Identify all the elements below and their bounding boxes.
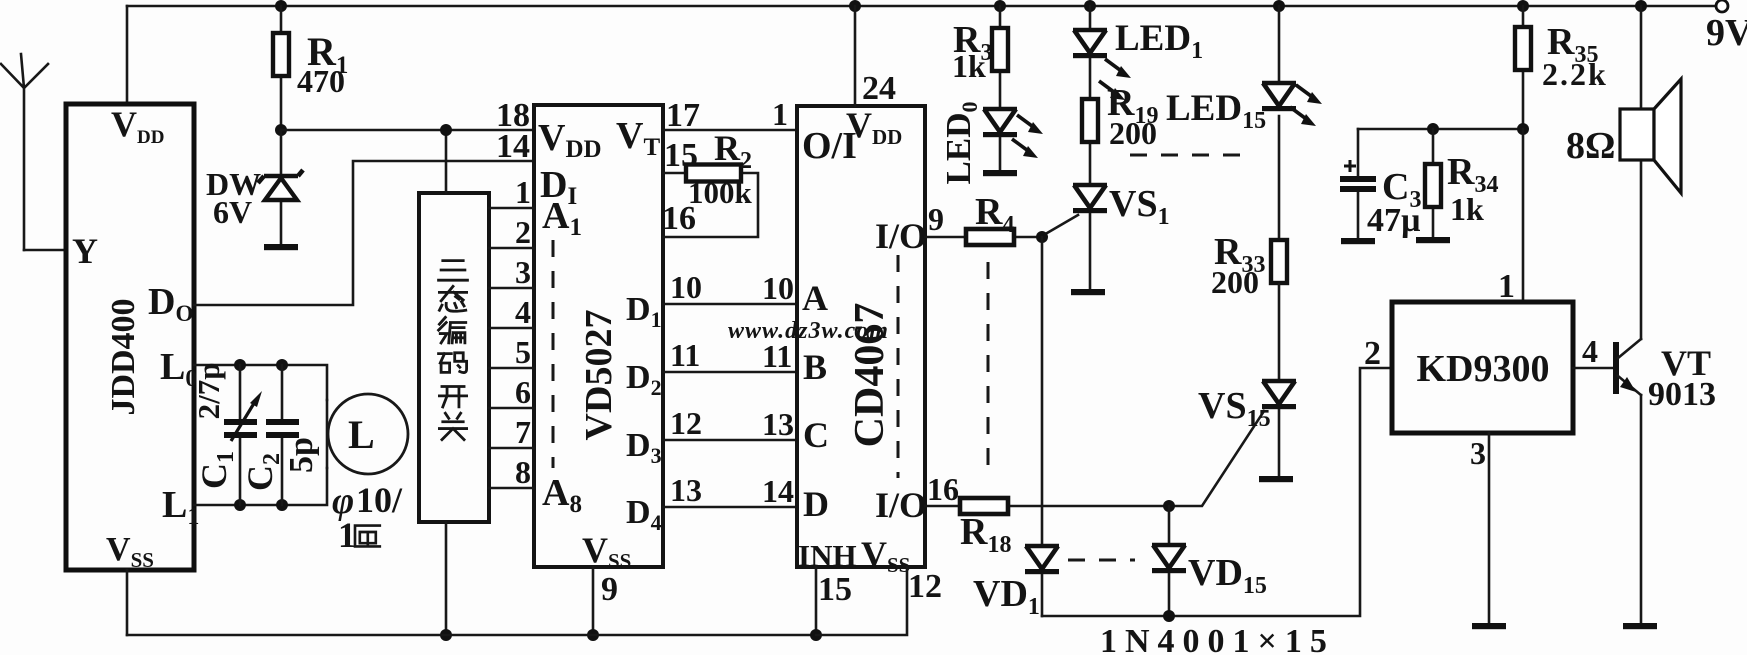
- svg-text:15: 15: [818, 571, 852, 608]
- resistor R19 200: [1082, 59, 1158, 183]
- ground VS15: [1259, 476, 1293, 482]
- svg-text:C: C: [803, 415, 829, 455]
- ground KD9300 pin3: [1472, 623, 1506, 629]
- capacitor C1 variable 2/7p: [191, 363, 262, 505]
- svg-text:4: 4: [1582, 333, 1598, 369]
- resistor R34 1k: [1425, 129, 1498, 237]
- svg-text:9: 9: [928, 201, 944, 237]
- svg-text:9013: 9013: [1648, 376, 1716, 413]
- dashed line I/O inside CD4067: [897, 255, 900, 478]
- svg-text:2.2k: 2.2k: [1542, 56, 1608, 92]
- svg-text:470: 470: [297, 63, 345, 99]
- dashed line A1..A8 inside VD5027: [552, 240, 555, 468]
- node junctions C1 C2: [234, 359, 288, 511]
- svg-text:13: 13: [762, 406, 794, 442]
- svg-text:1: 1: [772, 96, 788, 132]
- svg-text:11: 11: [670, 337, 700, 373]
- svg-text:10/: 10/: [356, 480, 403, 520]
- svg-text:15: 15: [664, 137, 698, 174]
- wire L0: [194, 365, 327, 400]
- svg-text:1: 1: [338, 515, 356, 555]
- capacitor C2 5p: [240, 365, 320, 505]
- svg-text:1N4001×15: 1N4001×15: [1100, 623, 1335, 655]
- svg-text:3: 3: [515, 254, 531, 290]
- node junction R1/DW/VDD: [275, 124, 287, 136]
- wire switch to A1 pin 1: [489, 174, 534, 210]
- wire switch to A2 pin 2: [489, 214, 534, 250]
- svg-text:LED1: LED1: [1115, 18, 1203, 64]
- resistor R1: [273, 6, 348, 130]
- wire R4 junction down to VD1: [1041, 237, 1044, 545]
- pin label 14: [496, 128, 530, 165]
- svg-text:1: 1: [515, 174, 531, 210]
- wire CD4067 VSS pin 12 to ground rail: [816, 567, 942, 635]
- wire D2 to B (pins 11-11): [663, 337, 797, 374]
- svg-text:47µ: 47µ: [1367, 202, 1421, 239]
- svg-text:14: 14: [496, 128, 530, 165]
- svg-text:A: A: [802, 278, 828, 318]
- antenna: [1, 54, 48, 250]
- ground R34: [1416, 237, 1450, 243]
- svg-text:2: 2: [515, 214, 531, 250]
- pin label 18: [496, 97, 530, 134]
- wire switch to A3 pin 3: [489, 254, 534, 290]
- svg-text:KD9300: KD9300: [1417, 348, 1550, 390]
- svg-text:10: 10: [670, 269, 702, 305]
- svg-text:6V: 6V: [213, 194, 252, 230]
- ground LED0: [983, 170, 1017, 176]
- wire switch bottom to ground rail: [440, 522, 452, 641]
- wire diode bus to KD9300 pin 2: [1042, 335, 1392, 622]
- IC U1 JDD400: [66, 104, 199, 572]
- diode VD15 1N4001: [1152, 506, 1267, 616]
- wire +9V top rail: [127, 5, 1721, 8]
- svg-text:200: 200: [1109, 115, 1157, 151]
- wire DO to VD5027 DI pin 14: [194, 161, 534, 305]
- dashed repetition line R4..R18: [987, 262, 990, 474]
- svg-text:12: 12: [670, 405, 702, 441]
- capacitor C3 47u electrolytic: [1340, 129, 1421, 239]
- svg-text:D: D: [803, 484, 829, 524]
- svg-text:14: 14: [762, 473, 794, 509]
- svg-text:L: L: [348, 412, 375, 457]
- svg-text:10: 10: [762, 270, 794, 306]
- resistor R35 2.2k: [1515, 6, 1608, 129]
- svg-text:6: 6: [515, 374, 531, 410]
- wire R35 node to KD9300 pin 1: [1498, 129, 1523, 305]
- IC U2 VD5027: [534, 105, 663, 573]
- svg-text:JDD400: JDD400: [105, 298, 142, 415]
- resistor R4 from I/O pin 9: [925, 191, 1042, 245]
- node junction R18/VS15 gate/VD15: [1163, 500, 1175, 512]
- svg-text:2: 2: [1364, 335, 1381, 372]
- svg-text:I/O: I/O: [875, 216, 927, 256]
- IC U3 CD4067: [797, 105, 927, 577]
- node 9V supply terminal: [1706, 0, 1747, 54]
- wire D4 to D (pins 13-14): [663, 472, 797, 509]
- svg-text:9V: 9V: [1706, 12, 1747, 54]
- ground DW: [264, 244, 298, 250]
- svg-text:5: 5: [515, 334, 531, 370]
- wire switch to A4 pin 4: [489, 294, 534, 330]
- IC U4 KD9300: [1392, 302, 1573, 433]
- svg-text:4: 4: [515, 294, 531, 330]
- svg-text:8: 8: [515, 454, 531, 490]
- wire CD4067 VDD pin 24: [855, 6, 896, 107]
- diode VD1 1N4001: [973, 546, 1059, 620]
- wire CD4067 INH pin 15 to ground rail: [810, 567, 852, 641]
- resistor R18 from I/O pin 16: [925, 471, 1169, 558]
- wire C3/R34 node: [1358, 123, 1529, 135]
- svg-text:17: 17: [666, 97, 700, 134]
- char 三: [439, 261, 468, 281]
- svg-text:7: 7: [515, 414, 531, 450]
- svg-text:CD4067: CD4067: [847, 303, 893, 448]
- wire D1 to A (pins 10-10): [663, 269, 797, 306]
- svg-text:13: 13: [670, 472, 702, 508]
- wire KD9300 pin 4 to transistor base: [1573, 333, 1614, 369]
- svg-text:24: 24: [862, 70, 896, 107]
- inductor L: [327, 394, 408, 474]
- svg-text:12: 12: [908, 568, 942, 605]
- char 编: [439, 317, 466, 343]
- svg-text:200: 200: [1211, 264, 1259, 300]
- thyristor VS1: [1042, 183, 1170, 290]
- zener diode DW 6V: [206, 130, 303, 245]
- svg-text:B: B: [803, 347, 827, 387]
- wire switch top to VDD net: [440, 124, 452, 193]
- wire antenna to pin Y: [24, 249, 66, 252]
- dashed repetition line VD1..VD15: [1068, 559, 1135, 562]
- wire switch to A6 pin 6: [489, 374, 534, 410]
- resistor R2 100k pins 15-16: [662, 128, 758, 237]
- label phi10/1turn: [332, 480, 403, 555]
- wire JDD400 VSS to ground rail: [126, 570, 129, 635]
- char 码: [439, 353, 467, 373]
- svg-text:3: 3: [1470, 435, 1486, 471]
- LED0: [939, 102, 1043, 185]
- char 开: [439, 387, 466, 407]
- wire VDD top-left drop: [126, 6, 129, 104]
- svg-text:9: 9: [601, 571, 618, 608]
- svg-text:LED0: LED0: [939, 102, 982, 185]
- LED1: [1073, 6, 1203, 100]
- LED15: [1166, 6, 1322, 240]
- svg-text:16: 16: [927, 471, 959, 507]
- char 关: [439, 413, 466, 439]
- char 态: [439, 286, 466, 311]
- node junctions on top rail: [275, 0, 1647, 12]
- svg-text:5p: 5p: [283, 437, 320, 473]
- label 1N4001 x15: [1100, 623, 1335, 655]
- dashed repetition line LED columns: [1130, 154, 1245, 157]
- svg-text:INH: INH: [798, 538, 857, 573]
- wire ground rail bottom: [127, 634, 816, 637]
- svg-text:1: 1: [1498, 268, 1515, 305]
- transistor VT 9013: [1616, 160, 1716, 624]
- wire VD5027 VSS pin 9 to ground rail: [587, 567, 618, 641]
- svg-text:2/7p: 2/7p: [191, 363, 226, 420]
- wire switch to A8 pin 8: [489, 454, 534, 490]
- resistor R3 1k: [952, 6, 1008, 109]
- char 匝: [355, 526, 380, 547]
- wire KD9300 pin 3 to ground: [1470, 433, 1489, 624]
- watermark www.dz3w.com: [728, 318, 889, 344]
- wire L1: [194, 468, 327, 505]
- svg-text:Y: Y: [72, 231, 98, 271]
- thyristor VS15: [1169, 381, 1296, 506]
- svg-text:I/O: I/O: [875, 485, 927, 525]
- wire switch to A7 pin 7: [489, 414, 534, 450]
- svg-text:1k: 1k: [1450, 191, 1484, 227]
- ground VT emitter: [1623, 623, 1657, 629]
- wire VDD net to VD5027 pin 18: [281, 129, 534, 132]
- resistor R33 200: [1211, 231, 1287, 379]
- svg-text:VD5027: VD5027: [578, 310, 620, 441]
- node junction R4/VS1 gate/VD1: [1036, 231, 1048, 243]
- switch block tri-state encoding switch: [419, 193, 489, 522]
- wire VT pin17 to CD4067 O/I pin1: [663, 96, 797, 134]
- ground C3: [1341, 238, 1375, 244]
- speaker 8ohm: [1566, 6, 1681, 193]
- svg-text:100k: 100k: [688, 175, 753, 210]
- wire D3 to C (pins 12-13): [663, 405, 797, 442]
- ground VS1: [1071, 289, 1105, 295]
- svg-text:1k: 1k: [952, 48, 986, 84]
- svg-text:8Ω: 8Ω: [1566, 125, 1615, 167]
- wire switch to A5 pin 5: [489, 334, 534, 370]
